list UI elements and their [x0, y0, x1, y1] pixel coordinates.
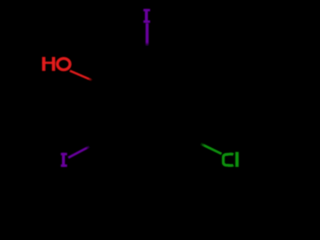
atom label I top (iodine, purple serif I)	[143, 9, 150, 23]
bond C2-I iodine half (purple)	[146, 23, 149, 46]
bond C4-Cl chlorine half (green)	[200, 144, 221, 154]
atom label Cl : C glyph (green)	[223, 154, 233, 166]
atom label I bottom-left (iodine, purple serif I)	[61, 153, 67, 167]
benzene ring (carbon skeleton, black = invisible on black bg)	[107, 65, 188, 158]
atom label HO : H glyph (red)	[42, 57, 55, 71]
bond C2-I carbon half (black)	[146, 45, 148, 65]
atom label HO : O glyph (red)	[57, 58, 70, 69]
bond C6-I carbon half (black)	[88, 135, 106, 148]
bond C4-Cl carbon half (black)	[188, 135, 203, 146]
bond C6-I iodine half (purple)	[68, 146, 90, 157]
bond C1-O carbon half (black)	[90, 79, 106, 88]
bond C1-O oxygen half (red)	[70, 71, 92, 81]
atom label Cl : l glyph (green)	[235, 152, 238, 167]
